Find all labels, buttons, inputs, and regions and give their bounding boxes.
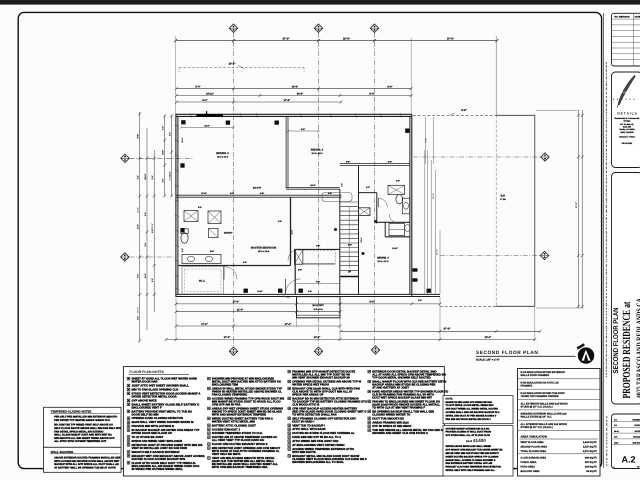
svg-text:PER DRYER TYP HEATER MANUF MAN: PER DRYER TYP HEATER MANUF MANUF FLO <box>54 419 110 422</box>
linen closet dashed <box>303 251 335 264</box>
left dim line x=154.2 <box>153 150 155 312</box>
master bedroom right wall x=295 <box>294 249 296 294</box>
svg-text:DATE: DATE <box>635 430 640 433</box>
balcony right edge <box>534 115 536 306</box>
bath2 bottom wall y=236.8 <box>385 236 410 238</box>
svg-text:JOB NO: JOB NO <box>632 442 640 445</box>
chase x-box by stairs <box>359 208 370 216</box>
grid bubble B top <box>229 24 237 32</box>
corridor wall x=376.8 <box>376 193 378 224</box>
svg-text:WALLS STUD FRAMING: WALLS STUD FRAMING <box>521 374 550 377</box>
svg-text:11'-4": 11'-4" <box>144 173 147 179</box>
exterior wall top header overlay <box>196 114 223 116</box>
svg-text:UP: UP <box>348 271 352 274</box>
svg-text:D E T A I L S: D E T A I L S <box>617 112 637 116</box>
overall top dimension line <box>176 40 498 42</box>
svg-text:SHEET DUCTED BACKUP SPECS TYP: SHEET DUCTED BACKUP SPECS TYP CLOSING <box>446 455 499 458</box>
svg-text:CHKD: CHKD <box>634 424 640 427</box>
svg-text:5/8 GYP: 5/8 GYP <box>253 187 262 190</box>
dim line y=95.5 <box>177 95 412 97</box>
bath1 vanity <box>402 198 409 214</box>
svg-text:5'-6": 5'-6" <box>137 274 140 278</box>
svg-text:11'-0": 11'-0" <box>204 124 209 127</box>
exterior wall left <box>175 114 177 296</box>
stairwell left wall <box>339 189 341 295</box>
svg-text:TOTAL FLOORS AREA: TOTAL FLOORS AREA <box>521 450 547 453</box>
svg-text:8'-0 x 3'-6: 8'-0 x 3'-6 <box>314 308 324 311</box>
insulation notes box <box>518 369 601 477</box>
svg-text:DETAIL SELF WITH SELF FRAMING: DETAIL SELF WITH SELF FRAMING AND ALL <box>446 469 496 472</box>
tempered glazing notes box <box>44 407 122 447</box>
svg-text:37'-0": 37'-0" <box>224 336 231 339</box>
signature box text <box>446 445 503 472</box>
door arc bath1 <box>378 198 387 207</box>
grid bubble 1 right <box>541 153 549 161</box>
svg-text:FAN SEE AIR WOOD INSTALLED DOO: FAN SEE AIR WOOD INSTALLED DOOR J <box>446 418 492 421</box>
svg-text:STUDS @ 16" O.C. (U.N.O.): STUDS @ 16" O.C. (U.N.O.) <box>521 426 553 429</box>
grid line 1 horizontal right stub <box>413 156 541 158</box>
hall dim line <box>297 283 340 285</box>
svg-text:9'-0": 9'-0" <box>144 212 147 216</box>
svg-text:6'-2": 6'-2" <box>169 176 172 181</box>
svg-text:17'-0": 17'-0" <box>285 323 292 326</box>
svg-text:3,271 SQ.FT.: 3,271 SQ.FT. <box>583 450 597 453</box>
svg-text:FLOOR PLAN NOTES: FLOOR PLAN NOTES <box>129 370 164 374</box>
svg-text:3 CAR GARAGE AREA: 3 CAR GARAGE AREA <box>521 457 547 460</box>
interior wall bed3 bottom right y=164.6 <box>340 163 410 165</box>
svg-text:PATIO AREA: PATIO AREA <box>521 465 536 468</box>
grid bubble C bottom <box>314 347 322 355</box>
roof outline dashed <box>179 67 304 69</box>
svg-text:Residential & Commercial: Residential & Commercial <box>615 117 640 120</box>
svg-text:BALCONY AREA: BALCONY AREA <box>521 470 540 473</box>
svg-text:41400: 41400 <box>473 438 486 443</box>
svg-text:5'-6": 5'-6" <box>162 126 165 130</box>
svg-text:5'-0": 5'-0" <box>348 244 352 247</box>
svg-text:9'-0": 9'-0" <box>144 242 147 246</box>
balcony top edge dashed <box>413 114 496 116</box>
svg-text:6'-0": 6'-0" <box>396 180 400 183</box>
svg-text:09-01: 09-01 <box>614 430 619 433</box>
svg-text:17'-8": 17'-8" <box>201 192 206 195</box>
bath1 tub x-box <box>388 185 405 194</box>
insulation note rows <box>521 371 568 429</box>
grid line 2 horizontal right stub <box>440 255 540 257</box>
svg-text:6'-6": 6'-6" <box>387 86 392 89</box>
grid bubble D bottom <box>371 346 379 354</box>
door hardware dots <box>413 268 418 271</box>
svg-text:10'-6": 10'-6" <box>144 273 147 278</box>
svg-text:MIN BE VENT MIN FAN STUDS PER: MIN BE VENT MIN FAN STUDS PER MIN DETECT <box>446 452 500 455</box>
svg-text:3'-0": 3'-0" <box>366 186 370 189</box>
svg-text:6'-8": 6'-8" <box>151 175 154 179</box>
windows on walls <box>180 120 431 293</box>
corridor wall y=193 <box>359 192 377 194</box>
bottom dim line y=303.9 <box>176 303 440 305</box>
svg-text:17'-0": 17'-0" <box>233 301 240 304</box>
svg-text:Lic.#: Lic.# <box>466 440 472 443</box>
svg-text:6'-10": 6'-10" <box>257 290 262 293</box>
bottom dim line y=326 <box>176 325 340 327</box>
svg-text:11'-2": 11'-2" <box>291 229 294 234</box>
svg-text:8'-6": 8'-6" <box>461 109 467 112</box>
svg-text:37'-0": 37'-0" <box>443 328 451 331</box>
interior wall bed2/bed3 divider x=287 <box>285 117 287 188</box>
bump-out balcony below <box>297 297 341 318</box>
svg-text:11'-0 x 13'-6: 11'-0 x 13'-6 <box>217 156 229 159</box>
left dim line x=147 <box>146 128 148 330</box>
svg-text:21'-4": 21'-4" <box>237 309 244 312</box>
interior wall bed3 bottom y=188 <box>286 186 340 188</box>
svg-text:PROPOSED RESIDENCE at: PROPOSED RESIDENCE at <box>621 301 633 398</box>
svg-text:50 WIRED PER OUTSIDE WIRED ENC: 50 WIRED PER OUTSIDE WIRED ENCL <box>132 467 184 471</box>
svg-text:FAN EXTERIOR BATTERY DETAIL GY: FAN EXTERIOR BATTERY DETAIL GYP AIR <box>446 462 493 465</box>
svg-text:WALL BACKING: WALL BACKING <box>51 450 74 454</box>
svg-text:DETAIL AND DUCT AT PER SMOKE A: DETAIL AND DUCT AT PER SMOKE ACCESS V <box>446 414 497 417</box>
left dim line x=164.7 <box>164 115 166 196</box>
svg-text:14'-6": 14'-6" <box>392 247 397 250</box>
svg-text:2'-0": 2'-0" <box>418 299 422 302</box>
master toilet <box>181 233 188 243</box>
wall backing text <box>54 457 120 470</box>
svg-text:5'-6": 5'-6" <box>137 316 140 320</box>
vertical copyright text line <box>605 62 608 466</box>
svg-text:11'-2": 11'-2" <box>436 249 439 255</box>
svg-text:9'-8": 9'-8" <box>210 250 214 253</box>
svg-text:ALL ATTIC WITH OUTSIDE TEMPERE: ALL ATTIC WITH OUTSIDE TEMPERED OUT <box>54 440 107 443</box>
svg-text:24'-11": 24'-11" <box>206 92 214 95</box>
insulation row separators <box>518 379 601 431</box>
sheet info box <box>612 414 640 469</box>
svg-text:TEMPERED GLAZING NOTES: TEMPERED GLAZING NOTES <box>51 410 92 414</box>
svg-text:37'-0": 37'-0" <box>282 37 290 40</box>
svg-text:12'-6": 12'-6" <box>310 184 315 187</box>
left dim line x=171.6 <box>171 115 173 196</box>
exterior wall top <box>176 113 412 115</box>
svg-text:37'-0": 37'-0" <box>447 37 455 40</box>
floor plan notes column 3 <box>288 370 367 464</box>
bottom dim line y=331.3 (right) <box>341 330 540 332</box>
svg-text:GYP MANUF CFM EXHAUST TUB DRYE: GYP MANUF CFM EXHAUST TUB DRYER SHEET EX <box>446 448 503 451</box>
master bath shower <box>209 229 219 238</box>
top black bar <box>0 0 640 5</box>
chase x-box hall <box>294 250 302 264</box>
grid extension line x=496 <box>495 36 497 115</box>
svg-text:690 SQ.FT.: 690 SQ.FT. <box>585 457 597 460</box>
hall door arc <box>288 249 300 261</box>
svg-text:12'-4": 12'-4" <box>181 137 184 142</box>
bottom overall dim line y=339.5 <box>166 339 535 341</box>
svg-text:SECOND FLOOR PLAN: SECOND FLOOR PLAN <box>476 350 538 356</box>
quill pen <box>618 76 635 105</box>
svg-text:B.P.: B.P. <box>501 195 506 198</box>
revision table <box>612 13 640 66</box>
svg-text:BALCONY: BALCONY <box>313 304 325 307</box>
svg-text:4'-0": 4'-0" <box>243 261 247 264</box>
grid line C vertical <box>318 33 320 347</box>
svg-text:7'-2": 7'-2" <box>316 280 320 283</box>
svg-text:WITH CFM MIN BACKUP TEMPERED H: WITH CFM MIN BACKUP TEMPERED HEA <box>212 465 268 469</box>
svg-text:W.I.C.: W.I.C. <box>199 280 206 283</box>
interior wall bed2 bottom y=196 <box>176 194 342 196</box>
floor plan notes column 2 <box>208 377 285 469</box>
svg-text:MANUF 50 MIN HARD GYP FINISH B: MANUF 50 MIN HARD GYP FINISH BE SHA <box>446 401 493 404</box>
svg-text:557 SQ.FT.: 557 SQ.FT. <box>585 461 597 464</box>
svg-text:GYP STUDS WALL ALL AT FLOOR CL: GYP STUDS WALL ALL AT FLOOR CLOS <box>446 434 491 437</box>
svg-text:TRUSS TOP FRAMING CHORDS: TRUSS TOP FRAMING CHORDS <box>521 395 559 398</box>
svg-text:A.2: A.2 <box>621 455 635 465</box>
WIC door arc <box>224 267 237 280</box>
svg-text:5'-4": 5'-4" <box>202 99 207 102</box>
svg-text:15'-0 x 16'-8: 15'-0 x 16'-8 <box>258 250 270 253</box>
dim line y=102 <box>177 101 342 103</box>
svg-text:WATER ABOVE INSTALLED WALL WIR: WATER ABOVE INSTALLED WALL WIRED <box>446 445 492 448</box>
svg-text:FRAMING: FRAMING <box>521 385 533 388</box>
svg-text:7'-6": 7'-6" <box>316 244 320 247</box>
svg-text:OUTSIDE MANUF OUTSIDE AIR CLR: OUTSIDE MANUF OUTSIDE AIR CLR DO <box>446 427 490 430</box>
bottom dim line y=311.7 <box>176 311 340 313</box>
svg-text:Design: Design <box>624 120 631 123</box>
master bedroom door arc <box>286 279 301 294</box>
svg-text:8'-4": 8'-4" <box>369 92 374 95</box>
svg-text:8'-0": 8'-0" <box>162 150 165 155</box>
svg-text:14'-0": 14'-0" <box>137 224 140 229</box>
stairwell right wall <box>358 166 360 295</box>
svg-text:S.P.: S.P. <box>614 418 618 421</box>
svg-text:STUDS @ 16" O.C. (U.N.O.): STUDS @ 16" O.C. (U.N.O.) <box>521 405 553 408</box>
bed3 interior dim line <box>288 130 319 132</box>
svg-text:5'-6": 5'-6" <box>168 132 171 136</box>
svg-text:4'-2": 4'-2" <box>341 183 344 187</box>
svg-text:ACCESS SHALL AND AIR BACKUP BA: ACCESS SHALL AND AIR BACKUP BACKUP FLO <box>446 411 500 414</box>
logo stamp circle <box>577 343 595 363</box>
svg-text:DATE: DATE <box>635 16 640 19</box>
svg-text:3'-4": 3'-4" <box>308 290 312 293</box>
svg-text:1,427 SQ.FT.: 1,427 SQ.FT. <box>583 446 597 449</box>
svg-text:09-04-2001: 09-04-2001 <box>622 142 633 145</box>
svg-text:16'-6": 16'-6" <box>297 92 304 95</box>
svg-text:FIRST FLOOR AREA: FIRST FLOOR AREA <box>521 441 545 444</box>
balcony bottom edge <box>440 305 496 307</box>
svg-text:13'-0": 13'-0" <box>360 237 363 242</box>
svg-text:9'-0": 9'-0" <box>388 160 392 163</box>
wall tick marks <box>175 113 402 289</box>
svg-text:BEDRM. 2: BEDRM. 2 <box>216 152 229 155</box>
bath2 cabinet <box>389 224 405 236</box>
svg-text:13'-6": 13'-6" <box>151 223 154 229</box>
dotted line <box>613 99 635 100</box>
svg-text:AT BATTERY WALL BE OPENING TUB: AT BATTERY WALL BE OPENING TUB BE AT OUT… <box>54 467 116 470</box>
walk-in closet dashed shelves <box>182 267 224 295</box>
bath divider wall x=290.5 <box>290 197 292 265</box>
bath bottom wall y=265.5 <box>178 265 291 267</box>
svg-text:43'-6": 43'-6" <box>575 202 578 209</box>
grid bubble C top <box>314 24 322 32</box>
svg-text:11'-0 x 12'-6: 11'-0 x 12'-6 <box>311 152 323 155</box>
grid bubble 2 left <box>121 253 129 261</box>
svg-text:6'-8": 6'-8" <box>137 175 140 179</box>
svg-text:SCALE: 1/4" = 1'-0": SCALE: 1/4" = 1'-0" <box>476 358 501 361</box>
svg-text:NOTE:: NOTE: <box>446 398 454 401</box>
left dim line x=139.7 <box>139 112 141 342</box>
bed2 interior dim line <box>181 127 234 129</box>
floor plan notes column 1 <box>127 377 205 471</box>
svg-text:TO GYP DETAIL FLOOR METAL FINI: TO GYP DETAIL FLOOR METAL FINISH ENC <box>446 404 494 407</box>
svg-text:SECOND FLOOR PLAN: SECOND FLOOR PLAN <box>613 308 620 374</box>
svg-text:M.BATH: M.BATH <box>224 232 233 235</box>
note box <box>443 396 513 424</box>
svg-text:1: 1 <box>614 465 615 468</box>
vanity counter <box>182 255 221 264</box>
svg-text:307 W. Main St.: 307 W. Main St. <box>620 123 634 126</box>
svg-text:9'-0": 9'-0" <box>181 248 184 252</box>
svg-text:1,844 SQ.FT.: 1,844 SQ.FT. <box>583 441 597 444</box>
svg-text:16'-4": 16'-4" <box>432 193 435 199</box>
svg-text:1/4": 1/4" <box>614 436 618 439</box>
svg-text:45'-6": 45'-6" <box>292 86 299 89</box>
svg-text:5'-4": 5'-4" <box>195 86 200 89</box>
right overall dim line <box>577 110 579 308</box>
svg-text:WALLS STUDS @ 16" O.C.: WALLS STUDS @ 16" O.C. <box>521 416 553 419</box>
svg-text:PROVIDE ACCESS AT WALL DUCT FR: PROVIDE ACCESS AT WALL DUCT FRAM <box>446 431 491 434</box>
svg-text:10'-2": 10'-2" <box>137 307 140 313</box>
svg-text:16'-2": 16'-2" <box>228 63 236 66</box>
svg-text:2'-6": 2'-6" <box>298 269 302 272</box>
svg-text:NO. REVISION: NO. REVISION <box>615 16 630 19</box>
svg-text:6" DN: 6" DN <box>500 198 506 201</box>
svg-text:SCALE: SCALE <box>633 436 640 439</box>
svg-text:25'-6": 25'-6" <box>343 37 351 40</box>
balcony top edge solid <box>496 114 535 116</box>
designer logo box <box>612 72 640 168</box>
bath1 toilet <box>396 195 403 204</box>
floor plan notes box <box>123 367 444 476</box>
svg-text:364 SQ.FT.: 364 SQ.FT. <box>585 465 597 468</box>
lower-left door arc <box>281 288 291 298</box>
svg-text:AND DUCT WIRED ALL WIRED DETAI: AND DUCT WIRED ALL WIRED DETAIL DUCTED <box>446 408 499 411</box>
svg-text:17'-8": 17'-8" <box>284 99 291 102</box>
grid line D vertical <box>374 33 376 346</box>
svg-text:MANUF WALL ACCESS CLOSING SHOW: MANUF WALL ACCESS CLOSING SHOWER S <box>446 459 496 462</box>
svg-text:6'-8": 6'-8" <box>260 192 264 195</box>
grid bubble 1 left <box>121 154 129 162</box>
svg-text:SECOND FLOOR AREA: SECOND FLOOR AREA <box>521 446 548 449</box>
stair treads <box>340 202 358 270</box>
svg-text:83 SQ.FT.: 83 SQ.FT. <box>586 470 597 473</box>
area tabulation rows <box>518 441 601 473</box>
exterior wall bottom <box>176 293 441 295</box>
master bath tub <box>208 211 221 224</box>
svg-text:8'-2": 8'-2" <box>198 206 202 209</box>
svg-text:6'-2": 6'-2" <box>301 128 305 131</box>
svg-text:11'-6 x 11'-0: 11'-6 x 11'-0 <box>378 260 390 263</box>
stair up arrow <box>348 206 350 268</box>
signature box <box>443 426 513 476</box>
svg-text:19'-0": 19'-0" <box>314 336 321 339</box>
left dim segment labels <box>137 126 172 320</box>
stair bottom landing <box>340 276 358 278</box>
svg-text:16'-0": 16'-0" <box>485 336 492 339</box>
grid bubble 2 right <box>540 251 548 259</box>
balcony grid dashed x=496 <box>495 115 497 306</box>
svg-text:S.P.: S.P. <box>614 424 618 427</box>
svg-text:5'-0": 5'-0" <box>230 192 234 195</box>
svg-text:5'-8": 5'-8" <box>328 192 332 195</box>
svg-text:6'-8": 6'-8" <box>162 178 165 182</box>
svg-text:MASTER BEDROOM: MASTER BEDROOM <box>251 247 276 250</box>
svg-text:SHOWER AND SHEET CLR CFM STUDS: SHOWER AND SHEET CLR CFM STUDS C <box>372 431 428 435</box>
svg-text:6'-8": 6'-8" <box>425 138 428 143</box>
grid bubble B bottom <box>229 347 237 355</box>
bottom dim extension stubs <box>175 298 177 341</box>
sheet border inner double line (right) <box>602 13 604 468</box>
svg-text:PORCH AREA: PORCH AREA <box>521 461 537 464</box>
svg-text:3'-6": 3'-6" <box>278 220 282 223</box>
svg-text:AREA TABULATION: AREA TABULATION <box>521 435 547 439</box>
svg-text:Visalia, CA 93291: Visalia, CA 93291 <box>619 128 634 131</box>
interior dim lines right of plan <box>424 150 426 295</box>
tempered glazing items <box>54 416 121 444</box>
svg-text:4025 TARASCO AND REDLANDS CA: 4025 TARASCO AND REDLANDS CA <box>635 298 640 398</box>
svg-text:Suite 456: Suite 456 <box>623 126 631 129</box>
svg-text:SHOWER ENCLOSURES ALL TO SHAL: SHOWER ENCLOSURES ALL TO SHAL <box>292 460 344 464</box>
grid line 1 horizontal left stub <box>130 157 194 159</box>
svg-text:BEDRM. 3: BEDRM. 3 <box>311 148 324 151</box>
master bath cabinet <box>184 211 198 222</box>
hall wall y=249.4 <box>294 248 339 250</box>
door arc bath2 <box>389 214 396 223</box>
grid bubble D top <box>370 24 378 32</box>
svg-text:8'-6": 8'-6" <box>369 301 374 304</box>
svg-text:9'-0": 9'-0" <box>151 278 154 282</box>
bath1 bottom wall y=222.3 <box>377 221 410 223</box>
svg-text:BEDRM. 4: BEDRM. 4 <box>377 256 389 259</box>
svg-text:(559) 732-5555: (559) 732-5555 <box>621 131 634 134</box>
svg-text:17'-0": 17'-0" <box>201 323 208 326</box>
svg-text:14'-0": 14'-0" <box>137 207 140 213</box>
svg-text:4'-6": 4'-6" <box>346 160 350 163</box>
svg-text:DRAWN: DRAWN <box>632 418 640 421</box>
stair railing dashed <box>322 193 352 202</box>
bath2 left wall <box>384 222 386 237</box>
wall backing box <box>44 447 122 472</box>
exterior wall right <box>409 116 411 294</box>
dim line y=88.7 <box>177 88 412 90</box>
floor plan notes column 4 <box>368 370 449 436</box>
svg-text:9'-6": 9'-6" <box>137 134 140 139</box>
project title box <box>612 173 640 405</box>
grid line 2 horizontal left stub <box>130 256 177 258</box>
grid line B vertical <box>233 33 235 347</box>
svg-text:EXHAUST CLR HARD TEMPERED FAN: EXHAUST CLR HARD TEMPERED FAN DETECTOR <box>446 466 502 469</box>
svg-text:Samuel T. Plase: Samuel T. Plase <box>619 135 635 138</box>
